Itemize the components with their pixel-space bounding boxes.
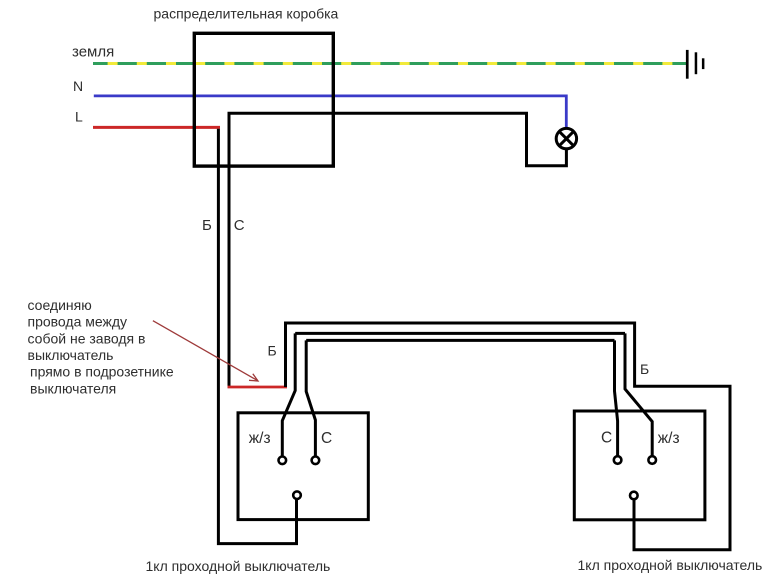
svg-text:ж/з: ж/з — [249, 430, 271, 447]
svg-text:выключателя: выключателя — [30, 380, 116, 396]
svg-text:ж/з: ж/з — [658, 430, 680, 447]
svg-text:Б: Б — [640, 361, 649, 377]
svg-text:соединяю: соединяю — [28, 297, 92, 313]
svg-text:N: N — [73, 78, 83, 94]
svg-text:выключатель: выключатель — [28, 347, 114, 363]
svg-text:С: С — [234, 217, 245, 234]
svg-text:С: С — [601, 430, 612, 447]
svg-text:провода между: провода между — [28, 314, 128, 330]
svg-text:1кл проходной выключатель: 1кл проходной выключатель — [578, 557, 763, 573]
svg-text:земля: земля — [72, 44, 114, 61]
svg-text:L: L — [75, 109, 83, 125]
svg-text:1кл проходной выключатель: 1кл проходной выключатель — [146, 558, 331, 574]
svg-text:собой не заводя в: собой не заводя в — [28, 330, 146, 346]
svg-text:Б: Б — [268, 343, 277, 359]
svg-text:Б: Б — [202, 217, 212, 234]
svg-text:прямо в подрозетнике: прямо в подрозетнике — [30, 364, 174, 380]
svg-text:распределительная коробка: распределительная коробка — [154, 6, 339, 22]
svg-text:С: С — [321, 430, 332, 447]
